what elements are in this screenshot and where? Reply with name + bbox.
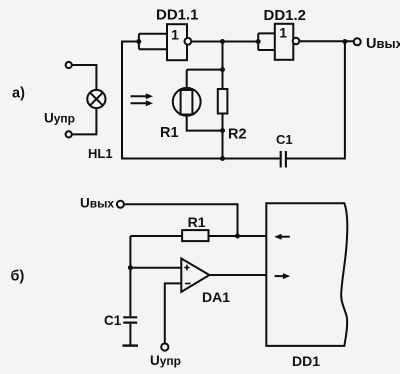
svg-text:HL1: HL1 <box>88 146 113 161</box>
svg-text:C1: C1 <box>104 313 122 328</box>
svg-text:Uупр: Uупр <box>150 353 181 368</box>
svg-text:DA1: DA1 <box>202 289 230 305</box>
svg-text:Uвых: Uвых <box>80 196 114 211</box>
svg-text:DD1.1: DD1.1 <box>156 7 199 24</box>
svg-text:R2: R2 <box>228 127 247 143</box>
svg-text:a): a) <box>12 86 25 102</box>
svg-text:DD1.2: DD1.2 <box>264 7 307 24</box>
svg-text:1: 1 <box>279 24 287 40</box>
svg-text:R1: R1 <box>160 125 179 141</box>
svg-text:б): б) <box>11 269 25 285</box>
svg-text:1: 1 <box>171 26 179 42</box>
svg-text:DD1: DD1 <box>292 353 320 369</box>
svg-text:Uупр: Uупр <box>44 111 75 126</box>
svg-text:Uвых: Uвых <box>366 36 400 52</box>
svg-text:R1: R1 <box>188 214 206 230</box>
svg-text:C1: C1 <box>276 132 293 147</box>
